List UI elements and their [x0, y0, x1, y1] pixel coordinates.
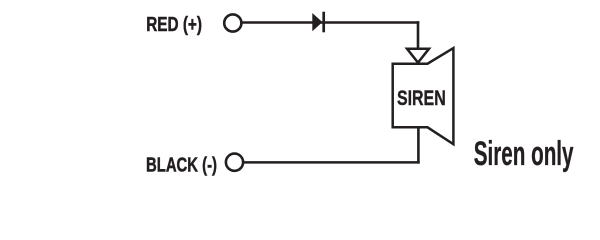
diode D1 cathode bar — [322, 12, 325, 33]
terminal BLACK (-) — [226, 154, 243, 171]
svg-text:RED (+): RED (+) — [146, 14, 202, 36]
arrow into siren — [407, 49, 429, 63]
svg-text:SIREN: SIREN — [397, 87, 446, 110]
wire right vertical — [417, 21, 420, 48]
wire top horizontal — [241, 21, 419, 24]
diode D1 anode triangle — [312, 13, 322, 31]
wire siren bottom vertical — [417, 127, 420, 163]
siren speaker body — [393, 48, 454, 144]
terminal RED (+) — [224, 14, 241, 31]
svg-text:BLACK (-): BLACK (-) — [146, 155, 217, 177]
wire bottom horizontal — [243, 161, 420, 164]
svg-text:Siren only: Siren only — [474, 135, 574, 173]
